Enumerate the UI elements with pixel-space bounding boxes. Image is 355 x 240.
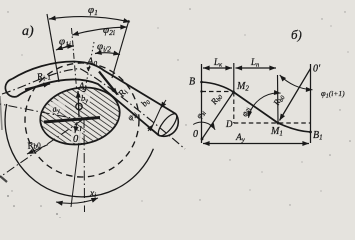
b0 width dimension — [152, 104, 163, 128]
angle arc phi1(i+1) — [280, 75, 313, 90]
svg-text:0: 0 — [193, 129, 198, 140]
rod end cap — [159, 114, 178, 136]
point O — [201, 138, 204, 141]
angle arc at O — [193, 122, 215, 130]
angle arc phi2i at M1 — [249, 93, 281, 118]
point B1 — [309, 131, 312, 134]
curve B-M2 — [202, 82, 234, 92]
svg-text:а): а) — [22, 24, 34, 39]
dashed vertical M2-D — [233, 92, 235, 123]
radial line L4 — [112, 20, 129, 78]
svg-text:B: B — [189, 77, 195, 88]
band centerline (dash-dot) — [2, 69, 185, 150]
vertical center line down (dash-dot) — [83, 118, 86, 212]
small circle at center pin — [76, 103, 82, 109]
dashed circle — [25, 63, 139, 177]
point M1 — [277, 122, 280, 125]
point B — [200, 81, 203, 84]
curved link band outline — [12, 62, 176, 136]
vertical extension through M2 — [233, 63, 235, 92]
svg-text:φ1(i+1): φ1(i+1) — [321, 88, 345, 100]
center line left (dash-dot) — [0, 104, 82, 120]
point M2 — [232, 91, 235, 94]
tilted line down (xi boundary) — [71, 126, 81, 207]
dimension L_k — [203, 67, 232, 69]
arc phi2i — [72, 27, 127, 35]
band left cap — [5, 79, 17, 97]
dashed horizontal D-M1-B1 — [234, 122, 311, 124]
svg-text:0: 0 — [73, 134, 79, 145]
segment M2-M1 — [234, 92, 279, 123]
dashed level line at M2 height — [202, 91, 234, 93]
scan smudges left edge — [0, 176, 7, 182]
dimension A_y — [203, 143, 309, 145]
arrow R i-1 — [25, 84, 50, 90]
vertical axis OB — [201, 64, 203, 143]
line M1-O' — [280, 69, 311, 121]
arc phi i/2 — [95, 53, 120, 55]
arrow Ri — [99, 72, 118, 95]
dimension L_p — [236, 67, 277, 69]
bold semi-axis line a_y — [44, 118, 100, 123]
curve M1-B1 — [278, 123, 311, 132]
svg-text:xi: xi — [89, 189, 96, 200]
line O-M2 (R_b0) — [202, 92, 234, 139]
radial line L2 — [72, 28, 77, 88]
tick dot on axis at M2 level — [200, 90, 202, 92]
point A0 — [87, 67, 92, 72]
rod end face ellipse — [155, 111, 180, 138]
arc phi1i — [56, 46, 74, 50]
label R_b0 with leader — [27, 145, 48, 155]
arc phi1 — [49, 17, 130, 22]
radial line L1 — [47, 14, 59, 82]
radial line L3 (dotted, through A0) — [84, 42, 94, 95]
hatched ellipse (contact area) — [36, 81, 125, 150]
xi measurement arc — [56, 198, 98, 203]
point Ai — [83, 91, 86, 94]
svg-text:A0: A0 — [86, 57, 97, 69]
svg-text:б): б) — [291, 27, 302, 42]
center line lower-left (dash-dot) — [0, 120, 82, 177]
svg-text:Ai: Ai — [78, 82, 87, 94]
svg-text:D: D — [225, 119, 233, 129]
label clearing patches — [80, 92, 90, 102]
vertical line O'-B1 — [310, 64, 312, 143]
small down arrow at O — [75, 122, 77, 133]
vertical above M1 — [277, 75, 280, 123]
arrow b_y — [78, 91, 79, 117]
big circle arc — [5, 104, 153, 197]
svg-text:0′: 0′ — [313, 64, 321, 75]
